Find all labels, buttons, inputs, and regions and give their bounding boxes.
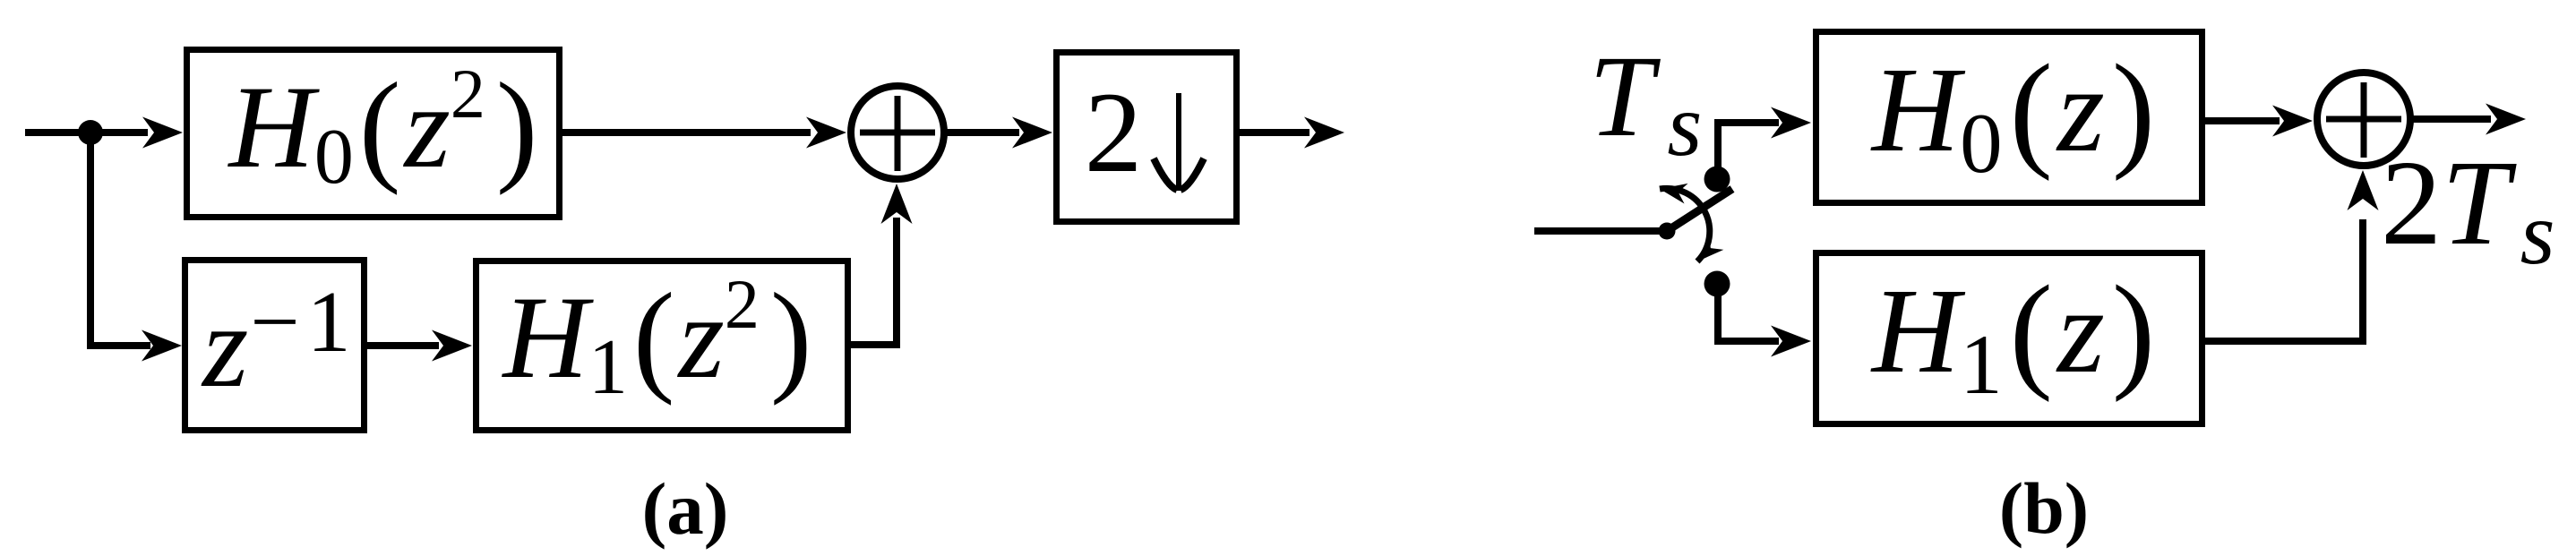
wire H0 to summer (a)	[561, 129, 811, 136]
svg-text:H0(z): H0(z)	[1870, 38, 2155, 191]
arrow into H1(z^2)	[432, 330, 472, 362]
svg-text:H1(z2): H1(z2)	[502, 265, 812, 411]
wire input (b)	[1534, 227, 1667, 235]
wire H1 up to summer (a)	[849, 218, 897, 345]
arc arrowhead top	[1658, 179, 1688, 204]
summer circle (b)	[2317, 73, 2410, 166]
wire bottom contact to H1(z)	[1718, 282, 1779, 341]
svg-text:2: 2	[1085, 68, 1143, 196]
block downsampler 2 box	[1057, 53, 1237, 222]
arc arrowhead bottom	[1690, 235, 1723, 269]
svg-text:Ts: Ts	[1589, 32, 1702, 175]
svg-text:H1(z): H1(z)	[1870, 260, 2155, 412]
block H0(z^2) box	[187, 50, 560, 218]
arrow into summer left (a)	[806, 117, 846, 149]
arrow into summer bottom (a)	[881, 184, 913, 224]
switch rotation arc	[1660, 188, 1710, 261]
plus sign (b)	[2326, 82, 2401, 158]
arrow into summer bottom (b)	[2348, 170, 2379, 210]
wire delay to H1 (a)	[365, 342, 439, 349]
wire H0(z) to summer (b)	[2203, 117, 2280, 124]
wire summer to downsampler (a)	[947, 129, 1019, 136]
switch arm	[1667, 189, 1732, 231]
block H0(z) box	[1816, 32, 2202, 203]
arrow into summer left (b)	[2272, 106, 2313, 137]
arrow into delay z^-1	[142, 330, 182, 362]
wire branch to delay (a)	[87, 342, 150, 349]
arrow into H0(z)	[1771, 107, 1811, 139]
summer circle (a)	[851, 86, 944, 179]
svg-text:2Ts: 2Ts	[2381, 136, 2555, 283]
arrow into H0(z^2)	[142, 117, 183, 149]
switch contact dot bottom	[1704, 271, 1730, 297]
wire input (a)	[25, 129, 148, 136]
switch pivot dot	[1659, 223, 1676, 240]
wire top contact to H0(z)	[1718, 123, 1779, 181]
block delay z^-1 box	[185, 261, 365, 431]
block H1(z^2) box	[477, 261, 848, 431]
downarrow glyph in downsampler	[1176, 93, 1181, 191]
arrow into H1(z)	[1771, 326, 1811, 357]
switch contact dot top	[1704, 167, 1730, 192]
svg-text:z−1: z−1	[201, 274, 358, 412]
wire H1(z) up to summer (b)	[2203, 219, 2363, 341]
arrow into downsampler	[1012, 117, 1052, 149]
wire branch vertical (a)	[87, 129, 94, 346]
plus sign (a)	[860, 96, 935, 171]
block H1(z) box	[1816, 253, 2202, 424]
node input branch dot (a)	[78, 120, 103, 145]
arrow output (b)	[2486, 104, 2526, 135]
arrow output (a)	[1304, 117, 1344, 149]
svg-text:(b): (b)	[1999, 467, 2089, 549]
svg-text:(a): (a)	[642, 467, 729, 550]
svg-text:H0(z2): H0(z2)	[228, 55, 538, 201]
wire summer output (b)	[2413, 115, 2491, 123]
wire downsampler output (a)	[1238, 129, 1309, 136]
